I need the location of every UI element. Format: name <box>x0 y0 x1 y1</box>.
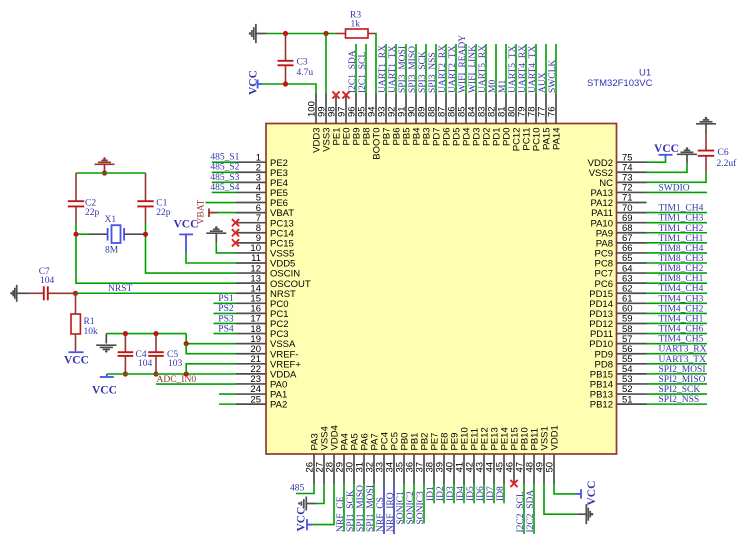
svg-text:UART1_RX: UART1_RX <box>378 45 388 93</box>
junction <box>184 371 189 376</box>
svg-text:STM32F103VC: STM32F103VC <box>587 78 653 89</box>
wire VBAT to pin6 <box>218 212 237 214</box>
resistor R3 <box>337 33 346 35</box>
wire net PS3 <box>214 322 237 324</box>
U1 pin 100 VDD3 <box>315 94 317 124</box>
wire net TIM4_CH3 <box>647 302 708 304</box>
ground pin49 <box>577 513 585 515</box>
svg-text:VCC: VCC <box>92 385 117 397</box>
svg-text:25: 25 <box>250 394 261 405</box>
U1 pin 80 PC12 <box>515 94 517 124</box>
svg-text:PS2: PS2 <box>218 304 234 314</box>
U1 pin 25 PA2 <box>236 403 266 405</box>
wire VSS5 to ground <box>216 242 236 253</box>
wire net ID5 <box>473 484 475 503</box>
svg-text:PS3: PS3 <box>218 314 234 324</box>
capacitor C6 <box>705 124 707 135</box>
U1 pin 17 PC2 <box>236 322 266 324</box>
wire net I2C1_SDA <box>355 44 357 94</box>
no-connect X pin7 <box>232 219 239 226</box>
wire net M1 <box>505 44 507 94</box>
U1 pin 19 VSSA <box>236 343 266 345</box>
power VCC C4 rail <box>106 374 108 377</box>
U1 pin 11 VDD5 <box>236 262 266 264</box>
ground near C7 <box>16 285 18 302</box>
resistor R1 <box>75 293 77 314</box>
wire net TIM8_CH3 <box>647 262 708 264</box>
svg-text:TIM4_CH4: TIM4_CH4 <box>659 284 704 294</box>
op-amp U1 body STM32F103VC <box>266 124 617 455</box>
wire net UART5_TX <box>515 44 517 94</box>
svg-text:NRF_CE: NRF_CE <box>336 496 346 532</box>
wire net UART2_TX <box>455 44 457 94</box>
wire C6 to pin73 NC <box>647 173 707 182</box>
svg-text:SONIC3: SONIC3 <box>416 491 426 525</box>
wire net 485_S2 <box>212 171 236 173</box>
U1 pin 38 PE7 <box>433 454 435 484</box>
wire net SONIC2 <box>413 484 415 524</box>
capacitor C4 <box>124 334 126 352</box>
svg-text:I2C1_SDA: I2C1_SDA <box>348 50 358 93</box>
wire net I2C2_SDA <box>533 484 535 534</box>
wire VCC to pin11 VDD5 <box>186 253 236 263</box>
wire to pin22 VDDA <box>186 373 236 375</box>
wire net SWCLK <box>555 44 557 94</box>
U1 pin 81 PD0 <box>505 94 507 124</box>
svg-text:TIM4_CH5: TIM4_CH5 <box>659 335 704 345</box>
U1 pin 87 PD6 <box>445 94 447 124</box>
U1 pin 55 PD8 <box>617 363 647 365</box>
svg-text:SONIC1: SONIC1 <box>396 491 406 525</box>
svg-text:ID1: ID1 <box>426 486 436 501</box>
wire net ID1 <box>433 484 435 503</box>
wire NRST <box>76 292 237 294</box>
U1 pin 95 PB8 <box>365 94 367 124</box>
svg-text:TIM8_CH4: TIM8_CH4 <box>659 244 704 254</box>
wire net AUX <box>545 44 547 94</box>
svg-text:PS4: PS4 <box>218 324 234 334</box>
U1 pin 21 VREF+ <box>236 363 266 365</box>
wire to pin19 VSSA <box>186 334 236 344</box>
svg-text:UART2_TX: UART2_TX <box>448 45 458 93</box>
wire OSCOUT <box>76 234 236 283</box>
power VCC pin50 <box>576 493 581 495</box>
svg-text:UART3_TX: UART3_TX <box>659 355 707 365</box>
U1 pin 3 PE4 <box>236 181 266 183</box>
svg-text:AUX: AUX <box>538 72 548 93</box>
U1 pin 39 PE8 <box>443 454 445 484</box>
U1 pin 67 PA8 <box>617 242 647 244</box>
U1 pin 58 PD11 <box>617 333 647 335</box>
wire R3 to pin94 BOOT0 <box>375 34 377 94</box>
U1 pin 53 PB14 <box>617 383 647 385</box>
wire net 485 <box>296 484 314 494</box>
svg-text:C3: C3 <box>297 58 308 68</box>
U1 pin 24 PA1 <box>236 393 266 395</box>
svg-text:UART1_TX: UART1_TX <box>388 45 398 93</box>
svg-text:NRF_IRQ: NRF_IRQ <box>386 492 396 532</box>
U1 pin 94 BOOT0 <box>375 94 377 124</box>
svg-text:TIM4_CH2: TIM4_CH2 <box>659 304 704 314</box>
U1 pin 28 VDD4 <box>333 454 335 484</box>
wire net ID7 <box>493 484 495 503</box>
svg-text:SWDIO: SWDIO <box>659 183 690 193</box>
svg-text:SPI3_SCK: SPI3_SCK <box>418 51 428 93</box>
wire net TIM1_CH3 <box>647 222 708 224</box>
svg-text:PS1: PS1 <box>218 294 234 304</box>
U1 pin 90 PB4 <box>415 94 417 124</box>
U1 pin 91 PB5 <box>405 94 407 124</box>
wire net ID6 <box>483 484 485 503</box>
junction <box>143 232 148 237</box>
no-connect X pin97 <box>342 91 349 98</box>
svg-text:103: 103 <box>168 359 183 369</box>
U1 pin 30 PA5 <box>353 454 355 484</box>
svg-text:I2C1_SCL: I2C1_SCL <box>358 52 368 93</box>
svg-text:ID8: ID8 <box>496 486 506 501</box>
svg-text:X1: X1 <box>105 215 117 225</box>
ground C4 rail <box>105 334 107 344</box>
wire net WIFI_READY <box>465 44 467 94</box>
U1 pin 89 PB3 <box>425 94 427 124</box>
U1 pin 29 PA4 <box>343 454 345 484</box>
svg-text:1k: 1k <box>351 20 361 30</box>
junction <box>73 232 78 237</box>
U1 pin 86 PD5 <box>455 94 457 124</box>
U1 pin 37 PB2 <box>423 454 425 484</box>
svg-text:485_S3: 485_S3 <box>210 173 239 183</box>
U1 pin 43 PE12 <box>483 454 485 484</box>
U1 pin 42 PE11 <box>473 454 475 484</box>
capacitor C2 <box>75 173 77 201</box>
wire net SONIC3 <box>423 484 425 524</box>
U1 pin 10 VSS5 <box>236 252 266 254</box>
U1 pin 46 PE15 <box>513 454 515 484</box>
svg-text:UART5_RX: UART5_RX <box>478 45 488 93</box>
U1 pin 66 PC9 <box>617 252 647 254</box>
svg-text:UART3_RX: UART3_RX <box>659 345 707 355</box>
wire net M0 <box>495 44 497 94</box>
svg-text:TIM4_CH3: TIM4_CH3 <box>659 294 704 304</box>
U1 pin 32 PA7 <box>373 454 375 484</box>
U1 pin 31 PA6 <box>363 454 365 484</box>
svg-text:SPI2_SCK: SPI2_SCK <box>659 385 701 395</box>
capacitor C5 <box>155 334 157 352</box>
wire net PS4 <box>214 333 237 335</box>
U1 pin 59 PD12 <box>617 322 647 324</box>
svg-text:10k: 10k <box>84 327 99 337</box>
wire net UART1_TX <box>395 44 397 94</box>
wire net ID8 <box>503 484 505 503</box>
wire VDD4 to VCC <box>313 484 335 525</box>
svg-text:UART5_TX: UART5_TX <box>508 45 518 93</box>
no-connect X pin9 <box>232 239 239 246</box>
U1 pin 36 PB1 <box>413 454 415 484</box>
U1 pin 84 PD3 <box>475 94 477 124</box>
wire net UART4_TX <box>535 44 537 94</box>
U1 pin 76 PA14 <box>555 94 557 124</box>
wire net NRF_CE <box>343 484 345 532</box>
wire net UART2_RX <box>445 44 447 94</box>
wire VDD1 to VCC <box>554 484 576 494</box>
U1 pin 64 PC7 <box>617 272 647 274</box>
wire net SPI1_MISO <box>363 484 365 532</box>
U1 pin 65 PC8 <box>617 262 647 264</box>
svg-text:SPI2_NSS: SPI2_NSS <box>659 395 700 405</box>
junction <box>283 31 288 36</box>
svg-text:50: 50 <box>545 462 556 473</box>
wire net TIM8_CH1 <box>647 282 708 284</box>
svg-text:104: 104 <box>138 359 153 369</box>
wire net PS2 <box>214 312 237 314</box>
junction <box>123 371 128 376</box>
U1 pin 92 PB6 <box>395 94 397 124</box>
U1 pin 23 PA0 <box>236 383 266 385</box>
wire net ID4 <box>463 484 465 503</box>
svg-text:485_S2: 485_S2 <box>210 163 239 173</box>
svg-text:SPI3_MISO: SPI3_MISO <box>408 46 418 93</box>
U1 pin 97 PE0 <box>345 94 347 124</box>
U1 pin 16 PC1 <box>236 312 266 314</box>
wire net UART3_TX <box>647 363 708 365</box>
svg-text:TIM8_CH3: TIM8_CH3 <box>659 254 704 264</box>
wire net SPI3_NSS <box>435 44 437 94</box>
U1 pin 2 PE3 <box>236 171 266 173</box>
wire net UART1_RX <box>385 44 387 94</box>
svg-text:I2C2_SDA: I2C2_SDA <box>526 490 536 533</box>
wire net UART4_RX <box>525 44 527 94</box>
no-connect X pin46 <box>510 480 517 487</box>
wire net SPI1_SCK <box>353 484 355 532</box>
wire VSS1 to ground <box>544 484 577 514</box>
U1 pin 51 PB12 <box>617 403 647 405</box>
U1 pin 47 PB10 <box>523 454 525 484</box>
wire net TIM4_CH2 <box>647 312 708 314</box>
U1 pin 79 PC11 <box>525 94 527 124</box>
crystal X1 <box>76 233 89 235</box>
U1 pin 1 PE2 <box>236 161 266 163</box>
svg-text:TIM8_CH1: TIM8_CH1 <box>659 274 704 284</box>
U1 pin 41 PE10 <box>463 454 465 484</box>
U1 pin 88 PD7 <box>435 94 437 124</box>
svg-text:22p: 22p <box>156 208 171 218</box>
U1 pin 82 PD1 <box>495 94 497 124</box>
wire net SPI3_MISO <box>415 44 417 94</box>
U1 pin 62 PD15 <box>617 292 647 294</box>
U1 pin 93 PB7 <box>385 94 387 124</box>
U1 pin 85 PD4 <box>465 94 467 124</box>
svg-text:ID3: ID3 <box>446 486 456 501</box>
svg-text:SPI1_MOSI: SPI1_MOSI <box>366 485 376 532</box>
svg-text:VDD1: VDD1 <box>550 425 561 450</box>
wire VCC rail C4C5 <box>107 373 186 375</box>
U1 pin 4 PE5 <box>236 191 266 193</box>
svg-text:TIM4_CH1: TIM4_CH1 <box>659 314 704 324</box>
svg-text:TIM1_CH1: TIM1_CH1 <box>659 234 704 244</box>
U1 pin 35 PB0 <box>403 454 405 484</box>
svg-text:SPI2_MISO: SPI2_MISO <box>659 375 706 385</box>
wire GND rail top <box>267 33 337 35</box>
svg-text:C6: C6 <box>718 148 729 158</box>
U1 pin 12 OSCIN <box>236 272 266 274</box>
svg-text:M0: M0 <box>488 80 498 93</box>
capacitor C3 <box>285 34 287 61</box>
wire net TIM1_CH1 <box>647 242 708 244</box>
U1 pin 68 PA9 <box>617 232 647 234</box>
power VCC below R1 <box>69 351 84 353</box>
svg-text:VCC: VCC <box>64 355 89 367</box>
U1 pin 22 VDDA <box>236 373 266 375</box>
U1 pin 70 PA11 <box>617 212 647 214</box>
svg-text:PA2: PA2 <box>270 400 287 411</box>
U1 pin 8 PC14 <box>236 232 266 234</box>
U1 pin 77 PA15 <box>545 94 547 124</box>
svg-text:I2C2_SCL: I2C2_SCL <box>516 491 526 532</box>
wire net TIM1_CH4 <box>647 212 708 214</box>
svg-text:TIM1_CH3: TIM1_CH3 <box>659 214 704 224</box>
svg-text:ID2: ID2 <box>436 486 446 501</box>
U1 pin 40 PE9 <box>453 454 455 484</box>
U1 pin 78 PC10 <box>535 94 537 124</box>
U1 pin 9 PC15 <box>236 242 266 244</box>
U1 pin 27 VSS4 <box>323 454 325 484</box>
svg-text:VCC: VCC <box>654 143 679 155</box>
U1 pin 75 VDD2 <box>617 161 647 163</box>
wire net SPI1_MOSI <box>373 484 375 532</box>
svg-text:PB12: PB12 <box>590 400 613 411</box>
wire net TIM4_CH5 <box>647 343 708 345</box>
U1 pin 83 PD2 <box>485 94 487 124</box>
U1 pin 6 VBAT <box>236 212 266 214</box>
U1 pin 13 OSCOUT <box>236 282 266 284</box>
junction <box>323 31 328 36</box>
svg-text:SPI3_MOSI: SPI3_MOSI <box>398 46 408 93</box>
svg-text:U1: U1 <box>639 67 651 78</box>
ground near pins 8-10 <box>206 232 226 234</box>
wire net NRF_IRQ <box>393 484 395 534</box>
svg-text:WIFI_READY: WIFI_READY <box>458 35 468 93</box>
svg-text:485: 485 <box>290 484 305 494</box>
svg-text:PA14: PA14 <box>552 128 563 151</box>
svg-text:ID7: ID7 <box>486 486 496 501</box>
svg-text:SONIC2: SONIC2 <box>406 491 416 525</box>
svg-text:51: 51 <box>622 394 633 405</box>
capacitor C7 <box>28 292 44 294</box>
wire net WIFI_LINK <box>475 44 477 94</box>
svg-text:NRST: NRST <box>108 284 132 294</box>
wire pin99 to GND rail <box>325 34 327 94</box>
svg-text:SPI1_MISO: SPI1_MISO <box>356 485 366 532</box>
U1 pin 26 PA3 <box>313 454 315 484</box>
wire net 485_S4 <box>212 191 236 193</box>
U1 pin 52 PB13 <box>617 393 647 395</box>
svg-text:VCC: VCC <box>586 481 598 506</box>
U1 pin 49 VSS1 <box>543 454 545 484</box>
wire VSS4 to ground <box>317 484 324 504</box>
wire PA2 stub <box>219 403 236 405</box>
wire crystal top rail <box>76 172 146 174</box>
capacitor C1 <box>145 173 147 201</box>
wire net TIM1_CH2 <box>647 232 708 234</box>
wire net TIM8_CH4 <box>647 252 708 254</box>
U1 pin 45 PE14 <box>503 454 505 484</box>
no-connect X pin98 <box>332 91 339 98</box>
wire to pin21 VREF+ <box>186 364 236 374</box>
svg-text:485_S4: 485_S4 <box>210 183 239 193</box>
svg-text:SPI3_NSS: SPI3_NSS <box>428 52 438 93</box>
U1 pin 99 VSS3 <box>325 94 327 124</box>
wire net TIM4_CH6 <box>647 333 708 335</box>
junction <box>283 81 288 86</box>
svg-text:8M: 8M <box>105 246 119 256</box>
svg-text:UART4_RX: UART4_RX <box>518 45 528 93</box>
svg-text:ADC_IN0: ADC_IN0 <box>157 375 197 385</box>
U1 pin 96 PB9 <box>355 94 357 124</box>
U1 pin 5 PE6 <box>236 202 266 204</box>
U1 pin 56 PD9 <box>617 353 647 355</box>
ground near C3 <box>255 24 257 43</box>
wire VCC rail to pin100 <box>262 84 316 94</box>
svg-text:TIM1_CH2: TIM1_CH2 <box>659 224 704 234</box>
svg-text:ID4: ID4 <box>456 486 466 501</box>
wire VDD2 to VCC <box>647 158 666 162</box>
svg-text:485_S1: 485_S1 <box>210 153 239 163</box>
wire net TIM4_CH4 <box>647 292 708 294</box>
wire net SPI2_MOSI <box>647 373 708 375</box>
svg-text:4.7u: 4.7u <box>297 68 314 78</box>
svg-text:VCC: VCC <box>296 507 308 532</box>
U1 pin 50 VDD1 <box>553 454 555 484</box>
wire net I2C2_SCL <box>523 484 525 534</box>
U1 pin 71 PA12 <box>617 202 647 204</box>
wire net ID2 <box>443 484 445 503</box>
wire net 485_S3 <box>212 181 236 183</box>
wire VSS2 to ground <box>647 163 688 172</box>
wire net UART3_RX <box>647 353 708 355</box>
U1 pin 14 NRST <box>236 292 266 294</box>
U1 pin 72 PA13 <box>617 191 647 193</box>
ground crystal top <box>95 163 115 165</box>
wire net SPI3_MOSI <box>405 44 407 94</box>
junction <box>184 341 189 346</box>
svg-text:SPI2_MOSI: SPI2_MOSI <box>659 365 706 375</box>
wire net SPI2_MISO <box>647 383 708 385</box>
wire net SONIC1 <box>403 484 405 524</box>
wire PE6 stub <box>206 202 237 204</box>
svg-text:TIM8_CH2: TIM8_CH2 <box>659 264 704 274</box>
U1 pin 54 PB15 <box>617 373 647 375</box>
svg-text:M1: M1 <box>498 80 508 93</box>
U1 pin 74 VSS2 <box>617 171 647 173</box>
svg-text:UART2_RX: UART2_RX <box>438 45 448 93</box>
U1 pin 33 PC4 <box>383 454 385 484</box>
svg-text:2.2uf: 2.2uf <box>717 158 738 169</box>
U1 pin 15 PC0 <box>236 302 266 304</box>
wire net UART5_RX <box>485 44 487 94</box>
wire net SPI2_SCK <box>647 393 708 395</box>
U1 pin 60 PD13 <box>617 312 647 314</box>
svg-text:SPI1_SCK: SPI1_SCK <box>346 490 356 532</box>
svg-text:TIM1_CH4: TIM1_CH4 <box>659 204 704 214</box>
U1 pin 20 VREF- <box>236 353 266 355</box>
wire net I2C1_SCL <box>365 44 367 94</box>
U1 pin 69 PA10 <box>617 222 647 224</box>
U1 pin 63 PC6 <box>617 282 647 284</box>
wire net TIM8_CH2 <box>647 272 708 274</box>
U1 pin 73 NC <box>617 181 647 183</box>
wire GND rail C4C5 <box>106 333 186 335</box>
U1 pin 44 PE13 <box>493 454 495 484</box>
